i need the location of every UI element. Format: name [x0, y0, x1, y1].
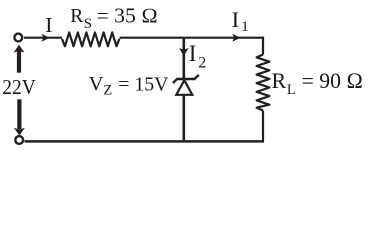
- svg-text:= 90 Ω: = 90 Ω: [302, 68, 364, 93]
- svg-text:2: 2: [198, 55, 206, 72]
- svg-text:L: L: [287, 82, 296, 98]
- svg-text:S: S: [84, 16, 92, 32]
- svg-text:I: I: [189, 41, 197, 66]
- svg-text:V: V: [89, 73, 104, 95]
- svg-text:= 35 Ω: = 35 Ω: [97, 3, 159, 27]
- svg-text:22V: 22V: [2, 75, 36, 99]
- svg-text:R: R: [272, 68, 287, 93]
- svg-text:1: 1: [241, 19, 249, 35]
- svg-text:I: I: [45, 13, 52, 37]
- svg-text:Z: Z: [103, 82, 112, 98]
- svg-text:I: I: [232, 7, 240, 32]
- svg-text:R: R: [70, 6, 83, 27]
- svg-text:= 15V: = 15V: [118, 73, 168, 95]
